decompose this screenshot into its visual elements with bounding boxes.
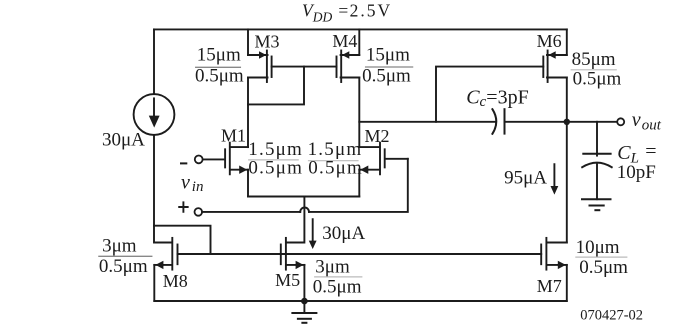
terminal: minus input circle — [195, 156, 203, 164]
transistor M5 (NMOS 3um/0.5um tail source) — [281, 238, 305, 270]
svg-text:10μm: 10μm — [576, 237, 620, 258]
svg-text:0.5μm: 0.5μm — [308, 157, 363, 178]
transistor M1 (NMOS 1.5um/0.5um, input pair left) — [225, 143, 248, 175]
ground (main, below bottom rail) — [292, 301, 316, 323]
label M6 — [537, 31, 562, 51]
svg-text:=3pF: =3pF — [486, 86, 528, 108]
svg-text:in: in — [192, 179, 204, 195]
transistor M3 (PMOS 15um/0.5um, mirrored gate-right) — [248, 51, 272, 83]
wire: M7 source to bottom rail — [566, 265, 568, 301]
svg-text:95μA: 95μA — [504, 168, 547, 189]
svg-text:0.5μm: 0.5μm — [248, 157, 303, 178]
node: output junction dot — [564, 119, 570, 125]
label 10um/0.5um (M7 size) — [576, 237, 629, 278]
svg-text:0.5μm: 0.5μm — [99, 256, 148, 277]
svg-text:15μm: 15μm — [197, 44, 241, 65]
label 0.5um 0.5um (M1 and M2 sizes) — [248, 157, 363, 178]
svg-text:M1: M1 — [221, 125, 246, 145]
wire: M2 source down to tail node — [358, 170, 360, 197]
label 15um/0.5um (M4 size) — [362, 44, 411, 86]
svg-text:3μm: 3μm — [102, 236, 137, 257]
svg-text:Cc: Cc — [466, 86, 486, 110]
fraction bar (M6 size) — [571, 69, 616, 71]
label Cc =3pF — [466, 86, 529, 110]
wire: left column from VDD rail to current source — [153, 29, 155, 94]
wire: minus input to M1 gate — [203, 158, 225, 160]
wire: bottom rail — [154, 300, 567, 302]
svg-text:30μA: 30μA — [322, 223, 365, 244]
svg-text:0.5μm: 0.5μm — [579, 257, 628, 278]
svg-text:v: v — [181, 171, 190, 193]
wire: CL branch from output line — [596, 122, 598, 156]
arrow: 30uA tail current — [309, 219, 317, 249]
svg-text:M7: M7 — [537, 276, 562, 296]
wire: gate bias line from M8 gate to M7 gate — [178, 253, 542, 255]
wire: M1 source down to tail node — [247, 170, 249, 197]
svg-text:VDD=2.5V: VDD=2.5V — [302, 0, 392, 24]
ground (below CL) — [582, 199, 611, 210]
node: ground junction dot — [301, 298, 308, 305]
svg-text:0.5μm: 0.5μm — [313, 277, 362, 298]
wire: VDD rail — [154, 28, 567, 30]
label CL = — [617, 141, 656, 167]
fraction bar (M3 size) — [196, 66, 241, 68]
label minus sign — [181, 162, 186, 164]
wire: second stage node line (M2/M4 drains to Cc and M6 gate) — [359, 121, 495, 123]
wire: common gate line M3-M4 — [272, 66, 337, 68]
terminal: plus input circle — [195, 208, 203, 216]
wire: M3 gate-drain diode connection — [248, 67, 304, 105]
label M1 — [221, 125, 246, 145]
transistor M8 (NMOS 3um/0.5um, diode connected) — [154, 238, 177, 270]
fraction bar (M4 size) — [366, 66, 413, 68]
wire: M6 gate drop — [436, 67, 543, 122]
wire: VDD drop to M4 source — [358, 29, 360, 55]
label 3um/0.5um (M8 size) — [99, 236, 148, 277]
wire: Cc right plate to output node — [505, 121, 567, 123]
svg-text:=: = — [645, 141, 656, 163]
transistor M6 (PMOS 85um/0.5um, second stage) — [543, 51, 567, 83]
label M8 — [163, 271, 188, 291]
svg-text:070427-02: 070427-02 — [580, 308, 643, 324]
label M5 — [275, 270, 300, 290]
svg-text:10pF: 10pF — [617, 162, 656, 183]
label M7 — [537, 276, 562, 296]
svg-text:M3: M3 — [255, 31, 280, 51]
wire: M3 drain column down to M1 drain — [247, 78, 249, 148]
svg-text:0.5μm: 0.5μm — [573, 69, 622, 90]
label figure number 070427-02 — [580, 308, 643, 324]
svg-text:out: out — [642, 117, 662, 133]
svg-text:15μm: 15μm — [366, 44, 410, 65]
wire: VDD drop to M3 source — [247, 29, 249, 55]
wire: tail line — [248, 196, 359, 198]
svg-text:30μA: 30μA — [102, 129, 145, 150]
wire: output column (M6 drain to M7 drain) — [566, 78, 568, 243]
transistor M2 (NMOS 1.5um/0.5um, input pair right, mirrored) — [359, 143, 408, 175]
fraction bar (M5 size) — [315, 276, 362, 278]
terminal: vout circle — [617, 118, 624, 125]
label M2 — [365, 126, 390, 146]
wire: M8 source to bottom rail — [153, 265, 155, 301]
svg-text:M4: M4 — [332, 31, 357, 51]
capacitor CL (straight top plate, curved bottom plate) — [582, 154, 612, 167]
wire: jog from left column to bias gate line (M8 diode connection) — [154, 226, 211, 254]
fraction bars (M1, M2 sizes) — [249, 159, 358, 162]
label 10pF — [617, 162, 656, 183]
current source 30uA (circle with down arrow) — [134, 94, 175, 135]
label 1.5um 1.5um (M1 and M2 sizes) — [248, 139, 362, 160]
wire: M4 drain column down to M2 drain — [358, 78, 360, 148]
transistor M4 (PMOS 15um/0.5um) — [337, 51, 360, 83]
node VDD label — [302, 0, 392, 24]
wire: left column from current source down to M8 drain — [153, 135, 155, 243]
wire: VDD rail end down to M6 source — [566, 29, 568, 55]
label v_out — [632, 109, 662, 133]
svg-text:0.5μm: 0.5μm — [195, 65, 244, 86]
label 95uA — [504, 168, 547, 189]
svg-text:v: v — [632, 109, 641, 131]
label 15um/0.5um (M3 size) — [195, 44, 244, 86]
wire: output node to vout terminal — [567, 121, 617, 123]
svg-text:3μm: 3μm — [315, 257, 350, 278]
label M3 — [255, 31, 280, 51]
svg-text:M5: M5 — [275, 270, 300, 290]
fraction bar (M8 size) — [99, 255, 152, 257]
svg-text:M6: M6 — [537, 31, 562, 51]
svg-text:0.5μm: 0.5μm — [362, 65, 411, 86]
label M4 — [332, 31, 357, 51]
wire: tail node down to M5 drain — [287, 197, 305, 243]
transistor M7 (NMOS 10um/0.5um, second stage) — [541, 238, 567, 270]
label v_in — [181, 171, 203, 195]
arrow: 95uA current — [551, 164, 559, 194]
wire: plus input line to M2 gate with hop over M5 drain wire — [202, 211, 300, 213]
capacitor Cc (curved left plate, straight right plate) — [492, 109, 504, 134]
label 85um/0.5um (M6 size) — [572, 49, 622, 90]
label 30uA (tail) — [322, 223, 365, 244]
label plus sign — [179, 202, 188, 212]
wire: M5 source to bottom rail — [303, 265, 305, 301]
fraction bar (M7 size) — [576, 256, 627, 258]
label 3um/0.5um (M5 size) — [313, 257, 362, 298]
svg-text:M2: M2 — [365, 126, 390, 146]
svg-text:85μm: 85μm — [572, 49, 616, 70]
label 30uA (left current source) — [102, 129, 145, 150]
wire: CL bottom plate to ground — [596, 165, 598, 200]
svg-text:M8: M8 — [163, 271, 188, 291]
